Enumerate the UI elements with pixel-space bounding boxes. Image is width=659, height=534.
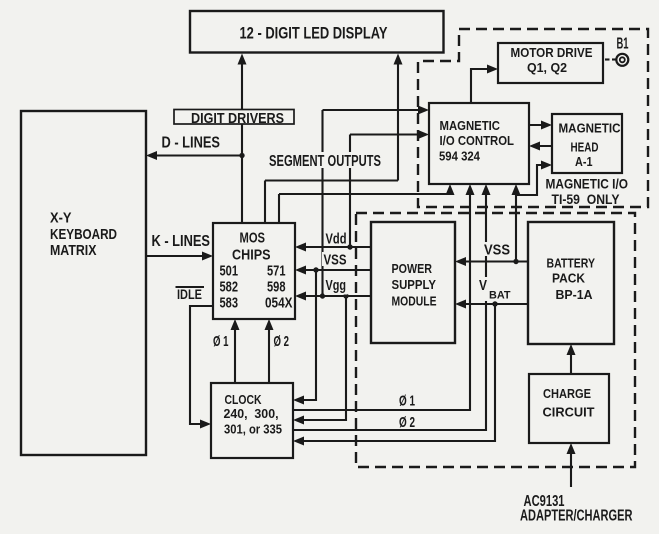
svg-text:MATRIX: MATRIX	[50, 242, 97, 259]
svg-text:POWER: POWER	[392, 261, 433, 276]
svg-text:583: 583	[220, 295, 239, 312]
svg-text:CLOCK: CLOCK	[225, 392, 262, 407]
svg-text:B1: B1	[617, 36, 629, 53]
svg-text:CIRCUIT: CIRCUIT	[543, 405, 595, 420]
svg-text:SUPPLY: SUPPLY	[392, 277, 437, 292]
svg-text:IDLE: IDLE	[177, 287, 202, 302]
svg-text:K - LINES: K - LINES	[152, 233, 211, 250]
svg-text:A-1: A-1	[575, 154, 593, 169]
svg-text:MAGNETIC I/O: MAGNETIC I/O	[546, 177, 629, 192]
svg-text:Ø 1: Ø 1	[213, 333, 229, 350]
svg-text:MAGNETIC: MAGNETIC	[559, 121, 622, 136]
svg-text:Ø 2: Ø 2	[274, 333, 290, 350]
svg-text:301, or 335: 301, or 335	[224, 422, 282, 437]
svg-text:DIGIT DRIVERS: DIGIT DRIVERS	[191, 110, 284, 127]
svg-text:MAGNETIC: MAGNETIC	[440, 118, 501, 133]
svg-text:Ø 2: Ø 2	[399, 414, 415, 431]
svg-text:571: 571	[267, 263, 286, 280]
svg-text:MOTOR DRIVE: MOTOR DRIVE	[511, 45, 593, 60]
svg-text:Ø 1: Ø 1	[399, 393, 415, 410]
svg-text:BP-1A: BP-1A	[556, 287, 594, 302]
svg-text:Vdd: Vdd	[326, 231, 347, 248]
svg-text:12 - DIGIT LED DISPLAY: 12 - DIGIT LED DISPLAY	[240, 24, 388, 43]
svg-text:501: 501	[220, 263, 239, 280]
svg-text:TI-59 ONLY: TI-59 ONLY	[552, 192, 620, 207]
svg-text:CHIPS: CHIPS	[232, 247, 271, 264]
svg-text:Q1, Q2: Q1, Q2	[527, 60, 567, 75]
svg-text:ADAPTER/CHARGER: ADAPTER/CHARGER	[520, 508, 633, 525]
svg-text:598: 598	[267, 279, 286, 296]
svg-text:MODULE: MODULE	[392, 294, 437, 309]
svg-text:SEGMENT OUTPUTS: SEGMENT OUTPUTS	[269, 153, 381, 170]
svg-text:240, 300,: 240, 300,	[224, 406, 279, 421]
svg-text:I/O CONTROL: I/O CONTROL	[440, 133, 515, 148]
svg-text:054X: 054X	[265, 295, 293, 312]
svg-text:BATTERY: BATTERY	[547, 256, 596, 271]
svg-text:594 324: 594 324	[439, 149, 481, 164]
svg-text:MOS: MOS	[240, 230, 266, 247]
svg-text:VSS: VSS	[324, 252, 347, 269]
svg-text:Vgg: Vgg	[326, 277, 347, 294]
svg-text:X-Y: X-Y	[50, 210, 72, 227]
svg-text:KEYBOARD: KEYBOARD	[50, 226, 117, 243]
svg-text:D - LINES: D - LINES	[162, 135, 221, 152]
svg-text:HEAD: HEAD	[571, 140, 599, 155]
svg-text:V: V	[479, 277, 487, 294]
svg-text:PACK: PACK	[552, 271, 586, 286]
svg-text:582: 582	[220, 279, 239, 296]
svg-text:BAT: BAT	[489, 290, 511, 302]
svg-text:CHARGE: CHARGE	[543, 386, 591, 401]
svg-text:VSS: VSS	[484, 242, 510, 259]
